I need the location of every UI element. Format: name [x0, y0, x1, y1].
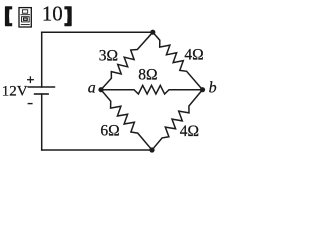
resistor R1 3ohm: [101, 32, 153, 89]
minus sign: [28, 103, 33, 105]
resistor R5 8ohm: [101, 85, 203, 94]
resistor R2 4ohm top: [153, 32, 203, 89]
svg-text:6Ω: 6Ω: [100, 123, 119, 140]
node a junction dot: [98, 87, 103, 92]
node T junction dot: [150, 30, 155, 35]
plus sign: [27, 79, 34, 81]
svg-text:a: a: [88, 80, 96, 97]
svg-text:3Ω: 3Ω: [99, 47, 118, 64]
svg-text:4Ω: 4Ω: [184, 47, 203, 64]
node b junction dot: [200, 87, 205, 92]
wire left lower: [41, 94, 43, 150]
svg-text:10: 10: [42, 2, 63, 26]
resistor R4 4ohm bottom: [152, 90, 203, 150]
title bracket right: [64, 6, 71, 26]
wire bottom: [42, 149, 152, 151]
node bottom junction dot: [149, 147, 154, 152]
title glyph tu (figure): [19, 8, 31, 27]
svg-text:12V: 12V: [2, 84, 28, 100]
resistor R3 6ohm: [101, 90, 152, 150]
svg-text:b: b: [209, 80, 217, 97]
wire top: [42, 31, 153, 33]
title bracket left: [5, 6, 12, 26]
svg-text:4Ω: 4Ω: [180, 123, 199, 140]
wire left upper: [41, 32, 43, 87]
battery V1 plates: [27, 76, 55, 103]
svg-text:8Ω: 8Ω: [138, 66, 157, 83]
